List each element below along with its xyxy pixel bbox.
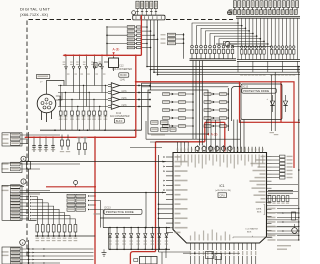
right edge vertical wire (298, 67, 300, 241)
transistor Q31 (27, 162, 31, 170)
diode column rails (192, 61, 194, 140)
svg-text:(4/4): (4/4) (122, 104, 127, 107)
connector CN4 key matrix rows (11, 195, 21, 198)
svg-text:BUFF: BUFF (116, 119, 123, 123)
riser continue (150, 70, 152, 91)
protective diode array D31-D39 (109, 228, 111, 234)
svg-text:D/A CONVERTER: D/A CONVERTER (113, 68, 133, 71)
red inner divider (280, 82, 282, 123)
svg-text:A-3b: A-3b (211, 132, 218, 136)
red left drop (94, 137, 96, 264)
circled node 1 (21, 179, 26, 184)
svg-text:PROTECTIVE DIODE: PROTECTIVE DIODE (106, 210, 134, 214)
wire bottom mid (103, 249, 105, 252)
long wire to CPU P-ports (20, 161, 166, 163)
wire column feeds (106, 28, 108, 56)
svg-text:(2/4): (2/4) (122, 90, 127, 93)
zener D12 (285, 95, 287, 101)
supply bus lines (147, 66, 300, 68)
corner wire (29, 220, 37, 222)
resistor pair R31 (61, 135, 63, 141)
black vertical feeder left of CPU (158, 155, 160, 252)
svg-text:(3/4): (3/4) (122, 97, 127, 100)
connector CN5 rows (28, 240, 30, 264)
decoupling network right (268, 190, 293, 192)
column B rails (227, 88, 229, 131)
svg-text:3: 3 (23, 157, 25, 161)
caps C35 C36 (78, 137, 80, 143)
red center drop (155, 142, 157, 252)
display bus lines (236, 15, 300, 17)
bottom feeder verticals (161, 252, 163, 264)
wire stubs above CPU right corner (271, 75, 273, 131)
connector wire drops (146, 20, 148, 67)
node E201 circle (227, 11, 231, 15)
svg-text:DC13: DC13 (242, 85, 249, 88)
svg-text:BUS: BUS (257, 211, 262, 213)
CPU top pins (177, 147, 179, 153)
node E202 circle (225, 42, 230, 47)
bypass caps C31-C34 (33, 137, 35, 145)
signal label rows P31-P34 (67, 194, 75, 197)
transistor Q11 (94, 63, 98, 68)
pull-up resistors right (280, 155, 286, 158)
red mid horizontal (25, 136, 136, 138)
matrix bus black (146, 138, 240, 140)
bus wires CPU to display (192, 23, 238, 45)
svg-text:IC12: IC12 (119, 65, 125, 68)
diode-resistor drop wires (65, 55, 67, 66)
svg-text:PROTECTIVE DIODE: PROTECTIVE DIODE (243, 89, 269, 93)
crystal X1 circuit (268, 208, 276, 210)
connector CN2 outer box (2, 163, 22, 173)
BUFF label box lower (114, 119, 124, 123)
protective diode outline DC13 (241, 84, 282, 120)
switch side wires (56, 93, 62, 101)
CPU right pins and labels (267, 156, 272, 158)
label 4/4 (94, 213, 101, 215)
key matrix bus (35, 235, 95, 237)
label boxes J21 J22 J23 (161, 34, 166, 35)
CPU left pins and labels (166, 156, 173, 158)
anode bus double line (190, 58, 237, 60)
diode column DA rows (163, 93, 170, 96)
ground bus (40, 129, 142, 131)
svg-text:J?: J? (40, 81, 43, 83)
connector CN2 rows (11, 162, 21, 166)
PROTECTIVE DIODE label (242, 88, 276, 93)
bus drop wires (237, 61, 239, 72)
CPU IC1 outline (173, 153, 267, 244)
capacitor forest C110-C118 (60, 86, 62, 112)
PROTECTIVE DIODE label lower (104, 209, 142, 214)
connector CN1 rows (11, 133, 21, 137)
rotary switch S1 (37, 94, 56, 113)
connector CN3 outer box (2, 185, 22, 220)
connector CN201 pin boxes (136, 1, 139, 8)
mid verticals to CPU top (206, 120, 208, 153)
red net riser from CN201 (140, 15, 142, 55)
right side wires (272, 184, 299, 186)
svg-text:DIGITAL UNIT: DIGITAL UNIT (20, 7, 51, 12)
circled node 3 (21, 156, 26, 161)
svg-text:1: 1 (23, 180, 25, 184)
circled node 2 (20, 240, 26, 246)
diode array bus upper (103, 227, 170, 229)
label cluster C40 (151, 121, 158, 124)
BUFF label box upper (119, 73, 129, 77)
red protective diode box (240, 82, 295, 123)
connector CN1 outer box (2, 133, 22, 146)
op-amp IC12 package box (109, 58, 119, 68)
red branch A-3b left (64, 54, 142, 56)
display anode bus pair (237, 59, 300, 61)
svg-text:BUFF: BUFF (120, 73, 127, 77)
svg-text:IC1: IC1 (220, 184, 225, 188)
diode array D201 row (191, 45, 194, 48)
switch top wire (47, 81, 65, 95)
capacitor array C201 row (229, 10, 232, 15)
red bottom extension (294, 121, 300, 123)
wire stubs upper-left CPU (177, 142, 179, 147)
svg-text:LCD MATRIX: LCD MATRIX (246, 227, 259, 230)
CPU bottom pins (190, 243, 192, 250)
CPU label box (218, 193, 227, 198)
diode column DB rows (204, 93, 211, 96)
svg-text:DATA: DATA (256, 207, 262, 210)
svg-text:A-3b: A-3b (113, 48, 120, 52)
red drop to bus (135, 55, 137, 137)
red horizontal to protective diode (136, 81, 240, 83)
svg-text:(uPD78C10-TB): (uPD78C10-TB) (215, 190, 231, 192)
connector CN3 rows (11, 185, 21, 189)
input wires to buffers (58, 85, 108, 87)
transformer box T1 (140, 257, 158, 264)
node E203 circle (132, 11, 136, 15)
junction symbol E31 (74, 181, 78, 185)
resistor array R201 row (top) (233, 1, 236, 8)
svg-text:+: + (267, 98, 269, 101)
svg-text:(X66-712X -XX): (X66-712X -XX) (20, 13, 48, 17)
transistor row Q21-Q26 (195, 146, 199, 150)
CPU left pin arrows (164, 156, 166, 158)
REC label box (36, 74, 50, 78)
svg-text:BUS: BUS (247, 231, 252, 233)
diode array bus lower (109, 248, 171, 250)
GND wire mid (130, 147, 162, 149)
wire risers below protective box (233, 120, 235, 153)
svg-text:DC13: DC13 (105, 206, 112, 209)
op-amp buffer triangles (111, 83, 119, 89)
connector CN5 outer box (2, 247, 22, 264)
connector CN201 housing (133, 15, 165, 20)
dashed unit border (27, 20, 131, 257)
diode block outline (148, 90, 208, 134)
switch legs (41, 111, 43, 120)
display column wires (237, 18, 239, 59)
svg-text:D/A CONVERTER: D/A CONVERTER (110, 115, 130, 118)
red stub right edge (293, 122, 295, 168)
zener D11 (272, 95, 274, 101)
svg-text:CPU: CPU (219, 193, 225, 197)
key matrix resistors R41-R48 (36, 225, 39, 233)
bottom right labels (277, 245, 291, 246)
svg-text:(1/4): (1/4) (120, 79, 125, 82)
svg-text:2: 2 (22, 241, 24, 245)
resistor column R101-R106 labels (127, 26, 135, 29)
bottom cluster boxes (206, 252, 214, 259)
red staircase to lower protective block (156, 141, 205, 143)
